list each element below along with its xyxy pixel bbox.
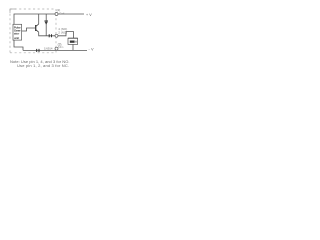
svg-text:Com: Com — [58, 46, 63, 49]
diode D1 triangle — [45, 22, 48, 25]
pin 4 terminal (middle, NO contact) — [55, 34, 58, 37]
pin 3 labels — [58, 42, 64, 49]
wire: load box to return rail — [72, 44, 74, 50]
pin 4 / pin 2 labels — [58, 27, 67, 34]
svg-text:Use pin 1, 2, and 3 for NC.: Use pin 1, 2, and 3 for NC. — [17, 63, 69, 68]
wire: collector drop from +V rail — [38, 14, 40, 24]
svg-text:-V: -V — [89, 47, 95, 51]
svg-text:+V: +V — [86, 13, 92, 17]
wire: base of Q1 from coil box — [22, 28, 36, 31]
wire: -V return rail — [23, 49, 87, 51]
wire: coil bottom return — [14, 40, 23, 50]
coil L1 (pulse generator box) — [13, 24, 22, 40]
wire: diode branch from +V rail — [45, 14, 47, 36]
diode D1 cathode bar — [44, 20, 48, 22]
wire: emitter of Q1 to pin 4 — [39, 32, 55, 36]
svg-text:1N914: 1N914 — [44, 46, 53, 50]
load box M1 (meter) — [68, 38, 78, 44]
package outline corner top-left — [10, 9, 16, 13]
transistor Q1 — [36, 24, 39, 32]
relay K1 package dashed outline — [10, 9, 56, 53]
pin 2 terminal (top, coil) — [55, 13, 58, 16]
wire: coil top to +V supply rail — [14, 14, 84, 24]
wire: pin 4 to load box — [58, 32, 73, 39]
reed contact S2 on return rail — [36, 49, 38, 52]
reed contact S1 on emitter wire — [48, 34, 50, 37]
coil L1 value label — [14, 26, 22, 40]
svg-text:unit: unit — [14, 36, 19, 40]
svg-text:Coil: Coil — [59, 11, 64, 15]
pin 3 terminal (bottom, common) — [55, 47, 58, 50]
